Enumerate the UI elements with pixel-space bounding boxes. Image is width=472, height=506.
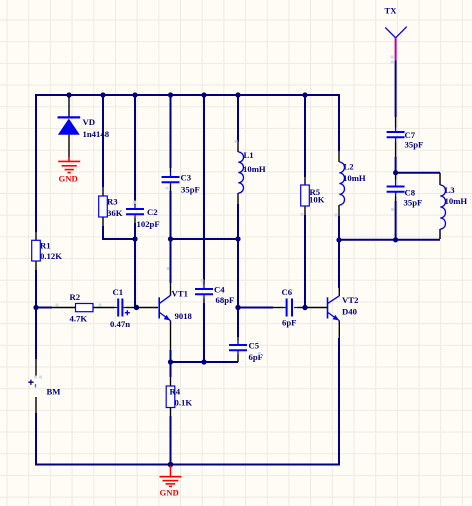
junction dot base node C1/C2	[134, 305, 139, 310]
wire C2 branch upper	[134, 95, 136, 200]
svg-text:R1: R1	[40, 241, 51, 251]
junction dot L2 bottom node	[336, 237, 341, 242]
junction dot R5 at top bus	[302, 92, 307, 97]
svg-text:C8: C8	[405, 188, 416, 198]
wire R3 bottom to C2 node	[103, 226, 135, 239]
svg-text:D40: D40	[342, 307, 358, 317]
wire antenna stem navy	[395, 60, 397, 117]
resistor R4	[166, 377, 192, 416]
wire VT2 base pin	[305, 307, 327, 309]
svg-text:10mH: 10mH	[445, 196, 468, 206]
resistor R5	[301, 177, 325, 215]
capacitor C5 6pF	[229, 337, 263, 362]
wire C2 node down to base node	[134, 223, 136, 308]
junction dot C2 at top bus	[132, 92, 137, 97]
svg-text:C7: C7	[405, 130, 416, 140]
svg-text:10K: 10K	[309, 195, 325, 205]
svg-text:9018: 9018	[175, 311, 193, 321]
capacitor C8 35pF	[387, 173, 423, 208]
wire R2 from left rail	[36, 307, 52, 309]
svg-text:35pF: 35pF	[404, 198, 423, 208]
capacitor C6 6pF	[273, 287, 305, 328]
junction dot C4 bottom node	[201, 359, 206, 364]
wire R3 branch	[102, 95, 104, 187]
svg-text:C4: C4	[214, 285, 225, 295]
capacitor C1 0.47u	[110, 287, 136, 329]
wire R5 branch upper	[304, 95, 306, 177]
resistor R2	[52, 292, 115, 324]
svg-text:L2: L2	[344, 162, 354, 172]
svg-text:102pF: 102pF	[137, 219, 160, 229]
svg-text:1n4148: 1n4148	[83, 129, 110, 139]
wire C6 node down to C5	[237, 308, 239, 338]
junction dot L1 bottom node	[235, 236, 240, 241]
junction dot VD at top bus	[66, 92, 71, 97]
svg-text:GND: GND	[59, 174, 78, 184]
microphone BM	[28, 359, 60, 413]
svg-text:C5: C5	[249, 341, 260, 351]
capacitor C4 68pF	[195, 280, 234, 305]
wire L1 bottom	[237, 204, 239, 239]
wire top power bus	[36, 94, 339, 96]
ground GND top (red)	[58, 157, 80, 173]
svg-text:35pF: 35pF	[405, 140, 424, 150]
svg-text:L1: L1	[244, 150, 254, 160]
svg-text:R3: R3	[107, 197, 118, 207]
svg-text:10mH: 10mH	[243, 164, 266, 174]
wire node to L3 top	[396, 172, 440, 174]
capacitor C3 35pF	[162, 168, 200, 195]
wire VT2 emitter to bottom bus	[338, 338, 340, 466]
wire L2 bottom	[338, 216, 340, 240]
resistor R1	[32, 232, 63, 270]
svg-text:VD: VD	[83, 117, 96, 127]
inductor L3 10mH	[440, 173, 467, 239]
wire L3 bottom rail to L2 node	[339, 239, 440, 241]
svg-text:C6: C6	[282, 287, 293, 297]
faint pin markers	[56, 304, 59, 307]
junction dot collector node	[168, 236, 173, 241]
svg-text:0.12K: 0.12K	[40, 251, 62, 261]
svg-text:6pF: 6pF	[282, 318, 296, 328]
resistor R3	[99, 187, 123, 226]
wire emitter to R4 node	[170, 350, 172, 363]
svg-text:VT2: VT2	[342, 295, 358, 305]
svg-text:TX: TX	[385, 6, 398, 16]
junction dot bottom GND node	[168, 462, 174, 468]
svg-text:L3: L3	[445, 185, 456, 195]
junction dot C8 bottom node	[393, 237, 398, 242]
wire L1 node down to C6 node	[237, 239, 239, 308]
wire antenna stem magenta	[395, 38, 397, 61]
inductor L2 10mH	[339, 151, 366, 216]
wire R4 to bottom bus	[170, 416, 172, 465]
wire C7 bottom to node	[395, 157, 397, 174]
wire right rail from top bus to L2	[338, 94, 340, 151]
junction dot C3 at top bus	[168, 92, 173, 97]
svg-text:0.47n: 0.47n	[110, 319, 130, 329]
wire emitter node down	[170, 362, 172, 377]
wire left rail middle	[35, 270, 37, 359]
wire R5 lower	[304, 215, 306, 308]
node R2 tap junction	[33, 305, 38, 310]
junction dot R5/base node	[302, 305, 307, 310]
svg-text:R4: R4	[170, 387, 181, 397]
svg-text:4.7K: 4.7K	[70, 314, 88, 324]
wire base node to VT1 base	[136, 307, 158, 309]
capacitor C2 102pF	[126, 200, 160, 229]
wire C3 branch upper	[170, 95, 172, 168]
wire left rail upper	[35, 94, 37, 232]
wire C8 lower	[395, 201, 397, 240]
svg-text:GND: GND	[160, 488, 179, 498]
junction dot emitter/R4 node	[168, 359, 173, 364]
wire C3 down to collector node	[170, 191, 172, 239]
wire L1 branch upper	[237, 95, 239, 142]
svg-text:R2: R2	[70, 292, 81, 302]
junction dot C4 at top bus	[201, 92, 206, 97]
wire emitter node horizontal to C5	[171, 361, 239, 363]
svg-text:C3: C3	[181, 173, 192, 183]
junction dot L1 at top bus	[235, 92, 240, 97]
wire C6 node to C6	[238, 307, 273, 309]
junction dot C2/R3 node	[132, 236, 137, 241]
diode VD with 1n4148 label	[58, 96, 110, 157]
junction dot C6 node	[235, 305, 240, 310]
wire collector node horizontal to L1	[171, 238, 239, 240]
svg-text:VT1: VT1	[172, 289, 188, 299]
ground GND bottom	[160, 466, 182, 487]
antenna TX	[385, 6, 407, 38]
transistor VT1 9018	[159, 283, 192, 350]
svg-text:BM: BM	[47, 387, 61, 397]
wire L2 node down to VT2	[338, 240, 340, 288]
svg-text:C1: C1	[113, 287, 124, 297]
wire bottom bus	[35, 464, 340, 466]
wire C4 branch upper	[203, 95, 205, 280]
wire left rail lower	[35, 413, 37, 466]
transistor VT2 D40	[328, 288, 359, 338]
junction dot C7/C8/L3 node	[393, 170, 398, 175]
svg-text:C2: C2	[147, 207, 158, 217]
svg-text:36K: 36K	[107, 208, 123, 218]
junction dot R3 at top bus	[100, 92, 105, 97]
inductor L1 10mH	[238, 142, 266, 204]
wire C4 lower	[203, 303, 205, 362]
svg-text:10mH: 10mH	[343, 173, 366, 183]
svg-text:0.1K: 0.1K	[175, 398, 193, 408]
svg-text:68pF: 68pF	[216, 295, 235, 305]
capacitor C7 35pF	[387, 117, 424, 157]
svg-text:35pF: 35pF	[181, 185, 200, 195]
wire collector node down	[170, 239, 172, 283]
